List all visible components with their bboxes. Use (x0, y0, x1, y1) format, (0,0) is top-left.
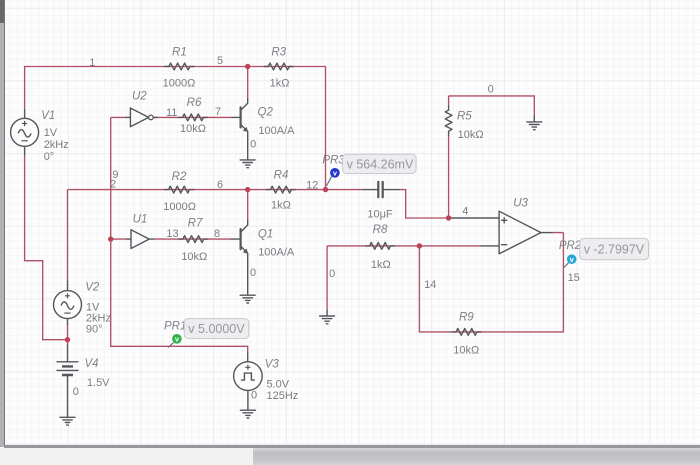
svg-text:10kΩ: 10kΩ (180, 123, 206, 135)
svg-text:6: 6 (217, 179, 223, 191)
svg-text:8: 8 (214, 228, 220, 240)
svg-text:V3: V3 (265, 359, 280, 371)
svg-text:V1: V1 (41, 110, 55, 122)
svg-text:R4: R4 (274, 170, 289, 182)
svg-text:U2: U2 (132, 91, 147, 103)
svg-text:1000Ω: 1000Ω (163, 78, 196, 90)
svg-text:0: 0 (250, 138, 256, 150)
svg-text:v -2.7997V: v -2.7997V (584, 242, 645, 256)
svg-text:v 5.0000V: v 5.0000V (188, 322, 245, 336)
svg-text:R7: R7 (188, 218, 203, 230)
svg-text:7: 7 (215, 106, 221, 118)
svg-text:100A/A: 100A/A (258, 247, 295, 259)
svg-text:0: 0 (250, 267, 256, 279)
svg-text:R8: R8 (373, 224, 388, 236)
svg-text:R3: R3 (271, 47, 286, 59)
svg-text:PR1: PR1 (164, 321, 186, 333)
svg-text:10kΩ: 10kΩ (453, 344, 479, 356)
svg-text:0: 0 (251, 389, 257, 401)
svg-text:U1: U1 (133, 214, 148, 226)
svg-text:R1: R1 (172, 47, 187, 59)
svg-text:Q1: Q1 (258, 229, 273, 241)
svg-text:R5: R5 (457, 111, 472, 123)
svg-text:1kΩ: 1kΩ (270, 78, 290, 90)
svg-text:10μF: 10μF (367, 208, 393, 220)
svg-text:Q2: Q2 (258, 107, 274, 119)
svg-text:12: 12 (306, 180, 318, 192)
svg-text:1V: 1V (44, 127, 58, 139)
svg-text:125Hz: 125Hz (267, 390, 299, 402)
svg-text:2: 2 (110, 178, 116, 190)
svg-text:5: 5 (217, 55, 223, 67)
svg-text:5.0V: 5.0V (267, 378, 290, 390)
svg-text:U3: U3 (513, 197, 528, 209)
svg-text:v 564.26mV: v 564.26mV (347, 157, 414, 171)
svg-text:R9: R9 (459, 312, 474, 324)
svg-text:PR2: PR2 (559, 240, 582, 252)
svg-text:0: 0 (488, 84, 494, 96)
svg-text:14: 14 (424, 279, 436, 291)
svg-text:1.5V: 1.5V (87, 377, 110, 389)
svg-text:0: 0 (329, 268, 335, 280)
svg-text:1000Ω: 1000Ω (163, 201, 196, 213)
svg-text:0: 0 (73, 386, 79, 398)
svg-text:10kΩ: 10kΩ (181, 251, 207, 263)
svg-text:V2: V2 (85, 281, 100, 293)
svg-text:4: 4 (462, 206, 468, 218)
svg-text:1: 1 (89, 57, 95, 69)
svg-text:PR3: PR3 (322, 155, 345, 167)
svg-text:15: 15 (568, 272, 580, 284)
svg-text:2kHz: 2kHz (44, 139, 69, 151)
svg-text:1kΩ: 1kΩ (271, 199, 291, 211)
svg-text:13: 13 (166, 228, 178, 240)
svg-text:90°: 90° (86, 324, 103, 336)
svg-text:10kΩ: 10kΩ (458, 129, 484, 141)
svg-text:R2: R2 (172, 171, 187, 183)
svg-text:V4: V4 (84, 358, 98, 370)
svg-text:1kΩ: 1kΩ (371, 259, 391, 271)
svg-text:0°: 0° (44, 151, 55, 163)
svg-text:11: 11 (166, 107, 177, 119)
svg-text:R6: R6 (187, 97, 202, 109)
svg-text:100A/A: 100A/A (258, 125, 295, 137)
